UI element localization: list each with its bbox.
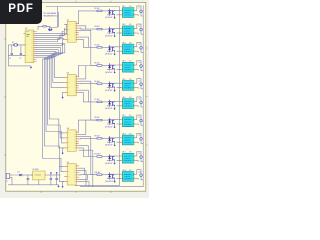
wire: relay contact to lamp <box>136 115 144 125</box>
svg-text:12V: 12V <box>129 133 132 135</box>
wire: R8 to Q7 base <box>102 119 113 121</box>
ground rail <box>8 184 59 186</box>
ground (U2) <box>63 39 65 42</box>
diode D4 (flyback) <box>108 45 111 52</box>
relay RL5 <box>121 81 136 91</box>
ground (U3) <box>63 92 65 96</box>
wire: relay supply rail (vertical) <box>118 7 120 186</box>
resistor R7 <box>97 101 102 103</box>
svg-text:R4 4k7: R4 4k7 <box>95 44 100 46</box>
wire: collector / coil nets <box>107 47 121 51</box>
resistor R8 <box>97 119 102 121</box>
capacitor C5 <box>55 175 58 185</box>
wire: cascade strobe branches <box>59 133 64 182</box>
ground (U5) <box>63 182 65 186</box>
transistor Q6 <box>113 101 115 106</box>
power flag +12V <box>56 173 58 174</box>
transistor Q4 <box>113 65 115 70</box>
svg-text:12V: 12V <box>129 115 132 117</box>
diode D9 (flyback) <box>108 136 111 143</box>
capacitor C1 <box>11 53 13 55</box>
resistor R9 <box>97 138 102 140</box>
lamp L9 <box>140 156 143 159</box>
shift register U5 <box>64 164 79 185</box>
diode D6 (flyback) <box>108 81 111 88</box>
relay RL3 <box>121 44 136 54</box>
transistor Q8 <box>113 138 115 143</box>
wire: reset net <box>38 26 50 30</box>
transistor Q1 <box>113 10 115 15</box>
diode D10 (flyback) <box>108 154 111 161</box>
lamp L5 <box>140 83 143 86</box>
wire: collector / coil nets <box>107 83 121 87</box>
svg-text:R11 4k7: R11 4k7 <box>95 172 101 174</box>
lamp L2 <box>140 28 143 31</box>
shift register U2 <box>64 21 79 42</box>
channel 4 group <box>95 61 144 74</box>
channel 3 group <box>95 42 144 55</box>
wire: R9 to Q8 base <box>102 137 113 139</box>
shift register U3 <box>64 74 79 95</box>
microcontroller U1 <box>23 30 36 63</box>
svg-text:L5: L5 <box>139 80 141 82</box>
wire: collector / coil nets <box>107 10 121 14</box>
svg-text:R7 4k7: R7 4k7 <box>95 99 100 101</box>
wire: R4 to Q3 base <box>102 46 113 48</box>
ground (reset cap) <box>49 29 51 30</box>
svg-text:12V: 12V <box>129 6 132 8</box>
svg-text:L7: L7 <box>139 117 141 119</box>
channel 6 group <box>95 97 144 110</box>
transistor Q5 <box>113 83 115 88</box>
resistor R2 <box>97 10 102 12</box>
ground (Q5 emitter) <box>114 88 116 89</box>
connector J1 <box>6 174 12 179</box>
svg-text:RL1: RL1 <box>122 6 125 8</box>
channel 1 group <box>95 6 144 19</box>
diode D3 (flyback) <box>108 27 111 34</box>
wire: AC input <box>12 175 19 185</box>
wire: relay contact to lamp <box>136 97 144 107</box>
wire: bottom return rails <box>75 185 119 187</box>
svg-text:Q8 BC547: Q8 BC547 <box>105 145 113 147</box>
regulator U6 <box>31 171 47 185</box>
wire: relay contact to lamp <box>136 6 144 16</box>
relay RL1 <box>121 8 136 18</box>
resistor R5 <box>97 65 102 67</box>
svg-text:U1: U1 <box>25 28 27 30</box>
lamp L3 <box>140 46 143 49</box>
wire: collector / coil nets <box>107 101 121 105</box>
wire: driver outputs to channels <box>78 11 97 180</box>
channel 8 group <box>95 133 144 146</box>
wire: collector / coil nets <box>107 138 121 142</box>
wire: R3 to Q2 base <box>102 28 113 30</box>
wire: MCU data/clock bundle <box>36 44 65 172</box>
svg-text:C2: C2 <box>19 58 21 60</box>
svg-text:RL4: RL4 <box>122 61 125 63</box>
lamp L6 <box>140 101 143 104</box>
svg-text:RL10: RL10 <box>122 170 126 172</box>
wire: R6 to Q5 base <box>102 83 113 85</box>
wire: +5V output <box>47 174 61 176</box>
wire: R7 to Q6 base <box>102 101 113 103</box>
relay RL10 <box>121 172 136 182</box>
svg-text:R9 4k7: R9 4k7 <box>95 135 100 137</box>
resistor R4 <box>97 47 102 49</box>
ground (supply) <box>58 185 60 186</box>
capacitor C3 <box>27 175 30 185</box>
svg-text:L8: L8 <box>139 135 141 137</box>
resistor R11 <box>97 174 102 176</box>
svg-text:L4: L4 <box>139 62 141 64</box>
wire: R10 to Q9 base <box>102 156 113 158</box>
lamp L4 <box>140 65 143 68</box>
relay RL7 <box>121 117 136 127</box>
wire: output bus to terminals <box>142 5 144 187</box>
wire: VDD drop to MCU <box>49 7 57 28</box>
svg-text:12V: 12V <box>129 61 132 63</box>
svg-text:Q3 BC547: Q3 BC547 <box>105 54 113 56</box>
ground (Q9 emitter) <box>114 160 116 161</box>
transistor Q2 <box>113 29 115 34</box>
svg-text:U3: U3 <box>67 73 69 75</box>
power flag +5V <box>50 173 52 174</box>
resistor R10 <box>97 156 102 158</box>
ground (Q8 emitter) <box>114 142 116 143</box>
wire: relay contact to lamp <box>136 152 144 162</box>
svg-text:RL2: RL2 <box>122 24 125 26</box>
svg-text:12V: 12V <box>129 42 132 44</box>
power flag VDD1 <box>48 30 50 31</box>
svg-text:RL3: RL3 <box>122 42 125 44</box>
ground (Q1 emitter) <box>114 15 116 16</box>
lamp L10 <box>140 174 143 177</box>
svg-text:Q7 BC547: Q7 BC547 <box>105 126 113 128</box>
ground (Q4 emitter) <box>114 69 116 70</box>
svg-text:L2: L2 <box>139 26 141 28</box>
lamp L7 <box>140 119 143 122</box>
svg-text:L9: L9 <box>139 153 141 155</box>
wire: relay contact to lamp <box>136 61 144 71</box>
svg-text:R8 4k7: R8 4k7 <box>95 117 100 119</box>
channel 5 group <box>95 79 144 92</box>
svg-text:U5: U5 <box>67 162 69 164</box>
capacitor C2 <box>20 53 22 55</box>
svg-text:D1: D1 <box>18 172 20 174</box>
wire: long risers spanning IC gaps <box>79 30 97 174</box>
ground (Q3 emitter) <box>114 51 116 52</box>
channel 9 group <box>95 152 144 165</box>
ground (MCU) <box>30 66 32 67</box>
diode D1 <box>19 174 22 177</box>
svg-text:J1: J1 <box>6 181 8 183</box>
svg-text:12V: 12V <box>129 97 132 99</box>
svg-text:Q10 BC547: Q10 BC547 <box>105 181 113 183</box>
wire: R2 to Q1 base <box>102 10 113 12</box>
svg-text:SEQUENCER V1.0: SEQUENCER V1.0 <box>44 15 58 17</box>
svg-text:Q2 BC547: Q2 BC547 <box>105 35 113 37</box>
wire: +V top rail <box>46 6 119 8</box>
svg-text:Q5 BC547: Q5 BC547 <box>105 90 113 92</box>
ground (Q2 emitter) <box>114 33 116 34</box>
svg-text:Q1 BC547: Q1 BC547 <box>105 17 113 19</box>
wire: rectified rail <box>22 174 33 176</box>
diode D7 (flyback) <box>108 100 111 107</box>
svg-text:RL9: RL9 <box>122 152 125 154</box>
wire: collector / coil nets <box>107 65 121 69</box>
wire: relay contact to lamp <box>136 42 144 52</box>
svg-text:R3 4k7: R3 4k7 <box>95 26 100 28</box>
relay RL6 <box>121 99 136 109</box>
wire: collector / coil nets <box>107 156 121 160</box>
channel 10 group <box>95 170 144 183</box>
wire: relay contact to lamp <box>136 24 144 34</box>
diode D11 (flyback) <box>108 172 111 179</box>
svg-text:Q4 BC547: Q4 BC547 <box>105 72 113 74</box>
svg-text:12V: 12V <box>129 79 132 81</box>
power flag VDD2 <box>51 30 53 31</box>
svg-text:R5 4k7: R5 4k7 <box>95 63 100 65</box>
wire: R5 to Q4 base <box>102 65 113 67</box>
shift register U4 <box>64 130 79 151</box>
wire: MCU ground run <box>8 55 31 66</box>
svg-text:R10 4k7: R10 4k7 <box>95 154 101 156</box>
wire: spare driver outputs to return rails <box>79 150 93 187</box>
transistor Q3 <box>113 47 115 52</box>
svg-text:RL5: RL5 <box>122 79 125 81</box>
svg-text:RL6: RL6 <box>122 97 125 99</box>
ground (Q7 emitter) <box>114 124 116 125</box>
svg-text:12V: 12V <box>129 152 132 154</box>
svg-text:U6 7805: U6 7805 <box>32 169 38 171</box>
svg-text:C1: C1 <box>9 58 11 60</box>
resistor R6 <box>97 83 102 85</box>
diode D5 (flyback) <box>108 63 111 70</box>
svg-text:L1: L1 <box>139 8 141 10</box>
relay RL2 <box>121 26 136 36</box>
svg-text:12V: 12V <box>129 24 132 26</box>
wire: relay contact to lamp <box>136 79 144 89</box>
svg-text:Q9 BC547: Q9 BC547 <box>105 163 113 165</box>
PDF badge overlay <box>0 0 42 24</box>
svg-text:L6: L6 <box>139 99 141 101</box>
channel 7 group <box>95 115 144 128</box>
diode D8 (flyback) <box>108 118 111 125</box>
ground (Q6 emitter) <box>114 106 116 107</box>
resistor R1 (reset pull) <box>43 26 47 27</box>
lamp L1 <box>140 10 143 13</box>
ground (U4) <box>63 148 65 152</box>
wire: relay contact to lamp <box>136 133 144 143</box>
wire: MCU to U2 port lines <box>36 24 67 41</box>
wire: relay contact to lamp <box>136 170 144 180</box>
transistor Q10 <box>113 174 115 179</box>
relay RL9 <box>121 153 136 163</box>
svg-text:12V: 12V <box>129 170 132 172</box>
ground (Q10 emitter) <box>114 179 116 180</box>
wire: collector / coil nets <box>107 29 121 33</box>
svg-text:L3: L3 <box>139 44 141 46</box>
transistor Q7 <box>113 120 115 125</box>
relay RL8 <box>121 135 136 145</box>
diode D2 (flyback) <box>108 9 111 16</box>
svg-text:RL7: RL7 <box>122 115 125 117</box>
svg-text:RL8: RL8 <box>122 133 125 135</box>
svg-text:X1: X1 <box>12 42 14 44</box>
wire: R11 to Q10 base <box>102 174 113 176</box>
resistor R3 <box>97 28 102 30</box>
svg-text:U4: U4 <box>67 128 69 130</box>
svg-text:Q6 BC547: Q6 BC547 <box>105 108 113 110</box>
channel 2 group <box>95 24 144 37</box>
svg-text:R2 4k7: R2 4k7 <box>95 8 100 10</box>
svg-text:U2: U2 <box>67 20 69 22</box>
wire: oscillator loop <box>8 45 25 56</box>
wire: collector / coil nets <box>107 120 121 124</box>
capacitor C4 <box>50 175 53 185</box>
relay RL4 <box>121 62 136 72</box>
wire: collector / coil nets <box>107 174 121 178</box>
transistor Q9 <box>113 156 115 161</box>
svg-text:L10: L10 <box>139 171 142 173</box>
crystal X1 <box>14 44 18 46</box>
svg-text:R6 4k7: R6 4k7 <box>95 81 100 83</box>
lamp L8 <box>140 137 143 140</box>
